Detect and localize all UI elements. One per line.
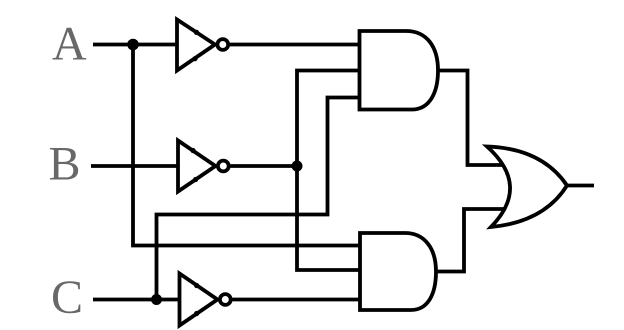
inverter U2 (NOT B): [178, 141, 229, 192]
wire C up to AND1 input 3: [157, 98, 361, 300]
AND gate U5 (bottom): [360, 233, 436, 310]
wire U1 output to AND1 input 1: [230, 43, 360, 47]
wire B input: [91, 164, 178, 168]
wire U3 output to AND2 input 3: [233, 298, 361, 302]
junction dot on A: [127, 39, 139, 51]
junction dot on C: [151, 294, 162, 305]
wire C input: [93, 298, 180, 302]
svg-text:B: B: [49, 138, 81, 191]
OR gate U6: [487, 147, 567, 228]
wire B' branch to AND1 input 2 and AND2 input 2: [297, 71, 360, 271]
wire A down to AND2 input 1: [133, 45, 360, 246]
junction dot on NOT-B output: [292, 161, 303, 172]
svg-text:C: C: [51, 271, 83, 324]
inverter U1 (NOT A): [177, 20, 228, 71]
wire output: [567, 184, 594, 188]
wire U2 output: [231, 164, 298, 168]
svg-text:A: A: [52, 18, 87, 71]
wire U5 output to OR input 2: [436, 209, 505, 272]
inverter U3 (NOT C): [180, 274, 231, 326]
wire A input: [93, 43, 177, 47]
AND gate U4 (top): [360, 31, 439, 110]
wire U4 output to OR input 1: [438, 71, 504, 166]
